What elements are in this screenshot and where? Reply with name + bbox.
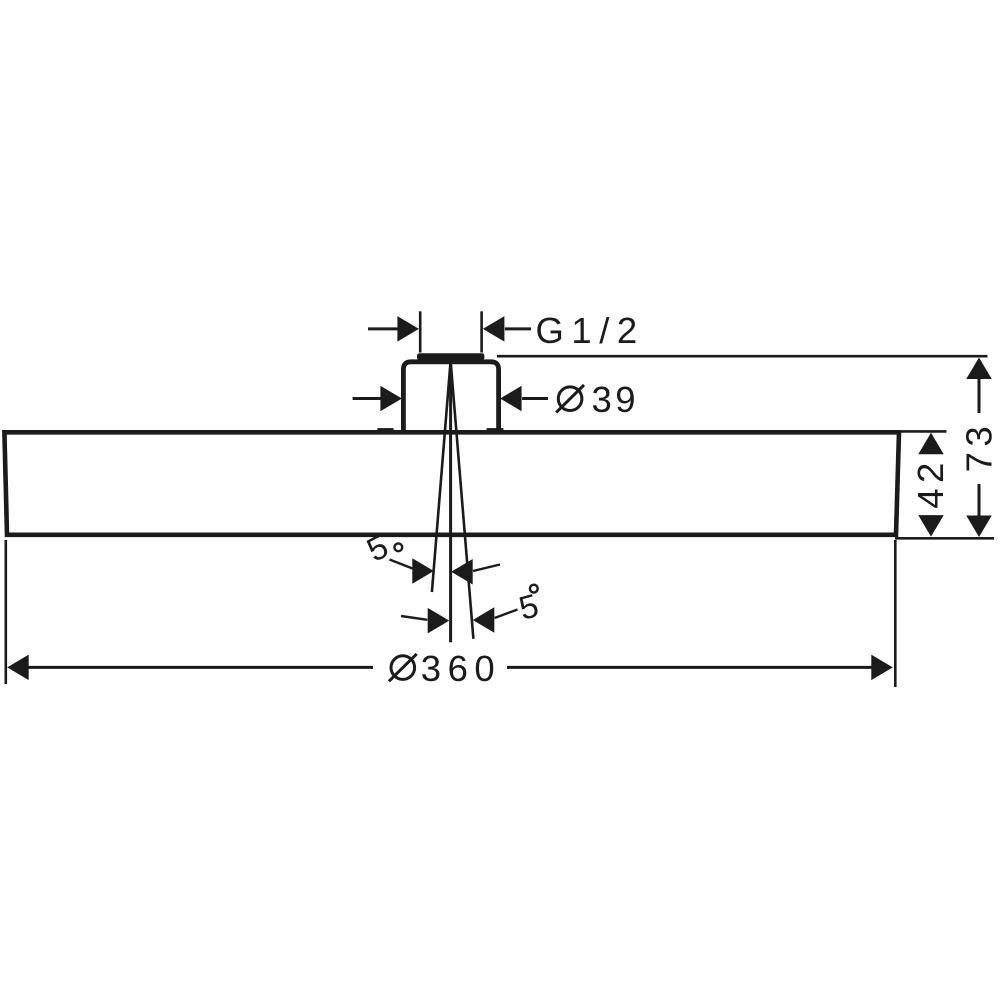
dimension 42 (897, 431, 951, 536)
left tab on plate (377, 428, 393, 431)
connector body (403, 362, 498, 433)
right tab on plate (487, 428, 504, 431)
svg-text:39: 39 (592, 379, 640, 420)
angle dimension 5 deg lower (401, 585, 542, 634)
dimension D39 (353, 379, 640, 420)
angle dimension 5 deg upper (361, 527, 500, 584)
shower plate (disc side view) (4, 432, 899, 535)
spray axis vertical line (449, 361, 452, 642)
svg-text:360: 360 (421, 648, 501, 689)
dimension D360 (6, 540, 896, 689)
dimension 73 (497, 356, 1000, 538)
dimension G1/2 (368, 310, 645, 353)
svg-text:G1/2: G1/2 (536, 310, 645, 351)
thread G1/2 (417, 353, 484, 360)
spray line right 5 deg (451, 361, 474, 639)
svg-text:42: 42 (910, 457, 951, 509)
spray line left 5 deg (432, 361, 451, 592)
svg-text:73: 73 (959, 421, 1000, 473)
